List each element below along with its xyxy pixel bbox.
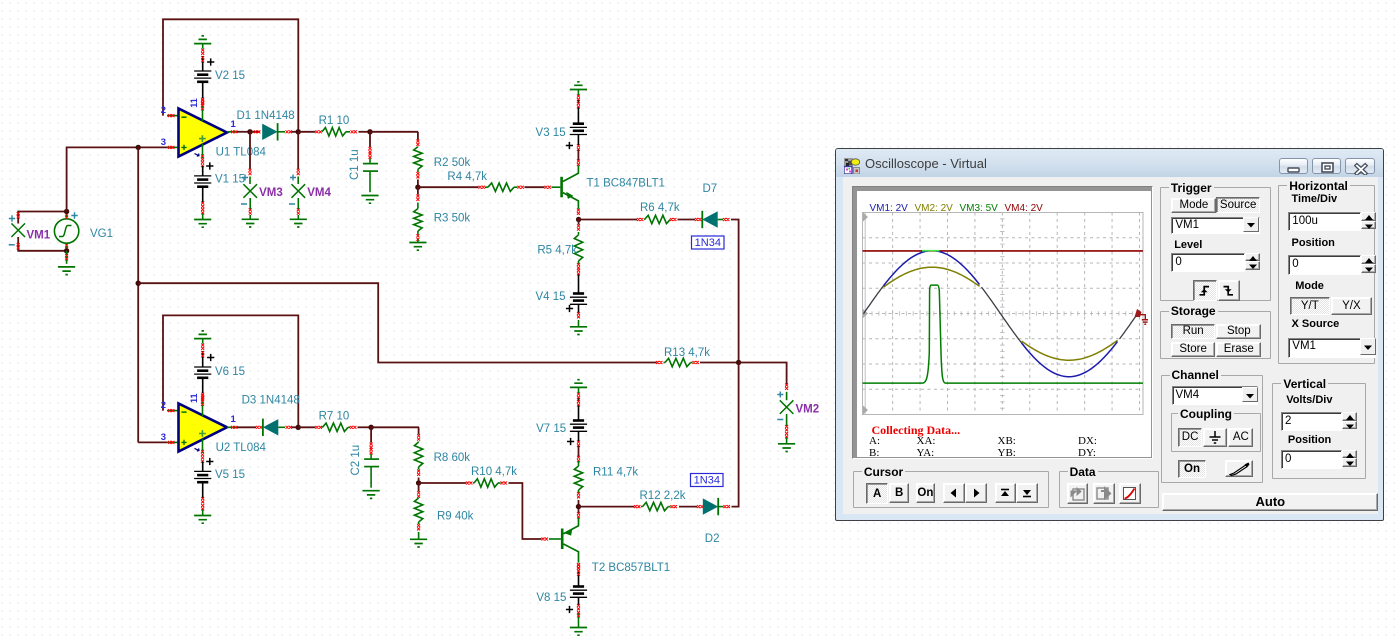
label VM1 [27, 230, 51, 242]
label D7 [703, 183, 718, 195]
wire V3 ground link [577, 90, 580, 124]
wire VM1 to VG1 bottom node [18, 237, 66, 251]
label U2 [216, 442, 267, 454]
svg-text:R2 50k: R2 50k [434, 157, 471, 169]
label V3 15 [536, 127, 566, 139]
svg-text:V1 15: V1 15 [215, 174, 245, 186]
svg-text:11: 11 [189, 393, 199, 403]
svg-text:VM1: VM1 [27, 230, 51, 242]
voltmeter VM4 [289, 175, 305, 220]
wire output node to VM2 [739, 363, 789, 401]
resistor R8 60k [414, 427, 422, 483]
resistor R4 4,7k [485, 183, 524, 191]
wire D7 to output rail [731, 220, 739, 364]
junction VM3 node [247, 129, 252, 134]
wire R13 to output node [700, 362, 739, 364]
junction U2 output node [296, 425, 301, 430]
wire V2 ground link [201, 44, 204, 71]
resistor R13 4,7k [656, 358, 699, 366]
ground below V1 [194, 220, 211, 228]
diode D2 1N34 [703, 498, 730, 515]
junction T1 emitter node [576, 217, 581, 222]
junction C2 node [368, 425, 373, 430]
wire U1 pin1 to node [227, 130, 250, 133]
svg-text:3: 3 [161, 432, 166, 443]
label C1 [349, 149, 361, 180]
wire D1 to VM4 node [292, 131, 299, 133]
diode D3 1N4148 [263, 419, 292, 436]
battery V3 15 [566, 124, 587, 166]
label R12 [640, 490, 686, 502]
resistor R5 4,7k [574, 220, 582, 294]
svg-text:R11 4,7k: R11 4,7k [593, 467, 638, 479]
svg-text:D1 1N4148: D1 1N4148 [237, 110, 295, 122]
ground below R3 [409, 243, 426, 251]
svg-text:3: 3 [161, 137, 166, 148]
svg-text:V4 15: V4 15 [535, 291, 565, 303]
resistor R9 40k [414, 483, 422, 539]
svg-text:D2: D2 [705, 533, 720, 545]
wire V7 ground link [577, 387, 580, 420]
ground below VM3 [242, 219, 259, 227]
label U1 [216, 147, 267, 159]
label V5 15 [215, 469, 245, 481]
op-amp U1 [179, 99, 228, 168]
ground below R9 [410, 539, 427, 547]
wire VM1 to VG1 top node [18, 212, 66, 224]
label U2 pin3 [161, 432, 166, 443]
label R1 [319, 115, 350, 127]
label U2 pin1 [231, 414, 237, 425]
voltmeter VM2 [777, 392, 793, 444]
wire R9 node to R10 [419, 482, 473, 485]
label R4 [447, 171, 487, 183]
voltmeter VM1 [9, 212, 25, 249]
label R6 [640, 202, 680, 214]
battery V8 15 [566, 564, 587, 628]
resistor R10 4,7k [473, 479, 507, 487]
svg-text:C1 1u: C1 1u [349, 149, 361, 180]
wire U1 pin3 stub [167, 146, 179, 149]
wire V6 ground link [201, 339, 204, 367]
wire R12 to D2 [679, 505, 703, 508]
label VM2 [796, 404, 820, 416]
svg-text:U1 TL084: U1 TL084 [216, 147, 267, 159]
label T2 [592, 562, 670, 574]
label D2 1N34 box [691, 474, 724, 487]
generator VG1 [54, 212, 78, 251]
svg-text:V7 15: V7 15 [536, 423, 566, 435]
junction node A long rail top [136, 145, 141, 150]
wire VM3 drop [249, 132, 252, 184]
label U1 pin2 [161, 105, 166, 116]
label VG1 [90, 228, 113, 240]
svg-text:V5 15: V5 15 [215, 469, 245, 481]
label U1 pin3 [161, 137, 166, 148]
diode D1 1N4148 [262, 123, 292, 140]
wire C2 node to R8 corner [371, 426, 419, 428]
svg-text:T2 BC857BLT1: T2 BC857BLT1 [592, 562, 670, 574]
wire VG1 up to U1 pin3 row [67, 147, 168, 211]
wire U1 feedback loop [163, 19, 298, 132]
svg-text:V8 15: V8 15 [536, 592, 566, 604]
label V8 15 [536, 592, 566, 604]
svg-text:1N34: 1N34 [695, 237, 721, 249]
label R13 [664, 347, 710, 359]
wire U1 pin2 stub [167, 114, 179, 117]
wire VM4 node to R1 [298, 130, 322, 133]
resistor R2 50k [414, 132, 422, 187]
label R11 [593, 467, 638, 479]
transistor T1 BC847BLT1 [560, 166, 580, 215]
battery V4 15 [566, 294, 587, 327]
junction VG1 bottom [64, 248, 69, 253]
label R5 [537, 245, 577, 257]
svg-text:2: 2 [161, 400, 166, 411]
label D1 [237, 110, 295, 122]
wire emitter node to R12 [579, 505, 641, 508]
voltmeter VM3 [241, 175, 257, 220]
resistor R11 4,7k [574, 461, 582, 507]
battery V1 15 [194, 162, 213, 219]
resistor R12 2,2k [641, 502, 677, 510]
svg-text:D3 1N4148: D3 1N4148 [242, 395, 300, 407]
svg-text:R12 2,2k: R12 2,2k [640, 490, 686, 502]
wire R6 to D7 [678, 218, 702, 221]
junction VG1 top [64, 209, 69, 214]
wire node to R7 [298, 426, 322, 429]
wire rail branch to R13 row [138, 283, 656, 362]
junction VM4 node [296, 129, 301, 134]
junction R8 R9 node [416, 480, 421, 485]
svg-text:V3 15: V3 15 [536, 127, 566, 139]
label V2 15 [215, 70, 245, 82]
svg-text:D7: D7 [703, 183, 718, 195]
wire VG1 ground stub [65, 251, 68, 264]
label C2 [350, 445, 362, 476]
wire D2 to output rail [732, 363, 739, 506]
svg-text:VM2: VM2 [796, 404, 820, 416]
resistor R6 4,7k [644, 215, 676, 223]
svg-text:R4 4,7k: R4 4,7k [447, 171, 487, 183]
ground above V2 [194, 36, 211, 44]
wire C1 node to R2 corner [370, 131, 418, 133]
ground below VM2 [778, 444, 795, 452]
svg-text:R8 60k: R8 60k [434, 452, 471, 464]
svg-text:T1 BC847BLT1: T1 BC847BLT1 [587, 178, 665, 190]
label U1 pin1 [231, 119, 237, 130]
label V1 15 [215, 174, 245, 186]
junction C1 node [367, 129, 372, 134]
label T1 [587, 178, 665, 190]
wire node to D1 [250, 130, 260, 133]
diode D7 1N34 [702, 211, 729, 228]
label R3 [434, 213, 471, 225]
wire C1 stub [369, 132, 372, 164]
wire R10 to T2 base [509, 483, 561, 541]
svg-text:R10 4,7k: R10 4,7k [471, 466, 517, 478]
junction rail to R13 branch [136, 281, 141, 286]
ground below C1 [361, 196, 378, 204]
svg-text:VG1: VG1 [90, 228, 113, 240]
svg-text:R13 4,7k: R13 4,7k [664, 347, 710, 359]
resistor R7 10 [322, 423, 357, 431]
wire R7 to C2 node [358, 426, 372, 428]
svg-text:R9 40k: R9 40k [437, 511, 474, 523]
resistor R3 50k [414, 187, 422, 242]
svg-text:V6 15: V6 15 [215, 366, 245, 378]
label D2 [705, 533, 720, 545]
label D7 1N34 box [692, 236, 725, 249]
svg-text:R3 50k: R3 50k [434, 213, 471, 225]
label VM3 [259, 187, 283, 199]
label R2 [434, 157, 471, 169]
label V6 15 [215, 366, 245, 378]
svg-text:R6 4,7k: R6 4,7k [640, 202, 680, 214]
ground above V7 [570, 380, 587, 388]
junction R2 R3 node [415, 185, 420, 190]
transistor T2 BC857BLT1 [561, 507, 580, 569]
label R10 [471, 466, 517, 478]
wire R1 to C1 node [359, 131, 371, 133]
wire VM4 drop [297, 132, 300, 184]
svg-text:R7 10: R7 10 [319, 411, 350, 423]
ground below V8 [570, 628, 587, 636]
battery V7 15 [567, 421, 587, 463]
svg-text:VM3: VM3 [259, 187, 283, 199]
wire U2 pin2 stub [167, 409, 179, 412]
ground above V6 [194, 331, 211, 339]
capacitor C2 1u [364, 459, 379, 488]
label R7 [319, 411, 350, 423]
label V4 15 [535, 291, 565, 303]
label VM4 [307, 187, 331, 199]
wire U2 feedback loop [163, 315, 298, 427]
svg-text:U2 TL084: U2 TL084 [216, 442, 267, 454]
wire R2 node to R4 [418, 186, 485, 189]
svg-text:R5 4,7k: R5 4,7k [537, 245, 577, 257]
op-amp U2 [179, 394, 228, 463]
wire R4 to T1 base [525, 186, 561, 189]
junction T2 emitter node [576, 504, 581, 509]
battery V6 15 [194, 354, 214, 399]
wire rail to U2 pin3 [138, 441, 178, 444]
svg-text:C2 1u: C2 1u [350, 445, 362, 476]
svg-text:R1 10: R1 10 [319, 115, 350, 127]
ground below V4 [570, 327, 587, 335]
svg-text:1: 1 [231, 414, 237, 425]
label U2 pin2 [161, 400, 166, 411]
label R8 [434, 452, 471, 464]
wire C2 stub [370, 427, 373, 459]
wire long vertical rail [137, 147, 139, 442]
battery V5 15 [194, 458, 213, 516]
ground below V5 [194, 516, 211, 524]
resistor R1 10 [322, 128, 357, 136]
label R9 [437, 511, 474, 523]
ground below C2 [363, 491, 380, 499]
ground below VM4 [290, 219, 307, 227]
ground below VG1 [58, 267, 75, 275]
svg-text:1N34: 1N34 [694, 475, 720, 487]
svg-text:2: 2 [161, 105, 166, 116]
label U1 pin11 [189, 98, 199, 108]
svg-text:11: 11 [189, 98, 199, 108]
battery V2 15 [194, 58, 214, 104]
label V7 15 [536, 423, 566, 435]
svg-text:VM4: VM4 [307, 187, 331, 199]
label U2 pin11 [189, 393, 199, 403]
wire emitter node to R6 [579, 218, 644, 221]
svg-text:V2 15: V2 15 [215, 70, 245, 82]
wire U2 pin1 to D3 [227, 426, 262, 429]
capacitor C1 1u [363, 164, 378, 193]
label D3 [242, 395, 300, 407]
wire D3 to feedback node [292, 426, 299, 428]
junction output node [736, 360, 741, 365]
ground above V3 [570, 82, 587, 90]
